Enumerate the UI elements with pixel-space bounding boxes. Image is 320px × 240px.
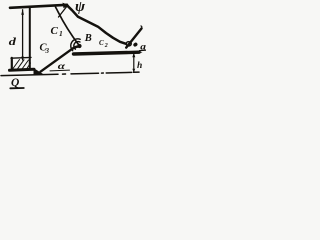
- svg-text:Q: Q: [11, 77, 19, 89]
- svg-text:ψ: ψ: [75, 0, 86, 15]
- svg-text:3: 3: [45, 47, 50, 55]
- svg-text:a: a: [140, 42, 146, 52]
- svg-text:C: C: [51, 25, 59, 37]
- svg-text:α: α: [58, 62, 66, 72]
- svg-text:h: h: [137, 61, 142, 71]
- svg-text:B: B: [84, 33, 92, 44]
- svg-text:d: d: [9, 35, 17, 47]
- svg-text:2: 2: [104, 43, 108, 49]
- svg-text:C: C: [99, 39, 104, 47]
- svg-text:1: 1: [59, 29, 63, 38]
